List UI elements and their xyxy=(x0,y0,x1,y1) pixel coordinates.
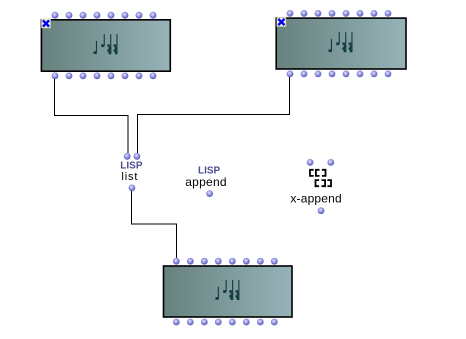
function box LISP list: name label xyxy=(121,171,138,183)
svg-text:list: list xyxy=(121,171,138,183)
function box LISP append: output bead xyxy=(206,190,213,197)
function box LISP list: output bead xyxy=(129,185,136,192)
svg-text:x-append: x-append xyxy=(290,192,341,206)
chord box 3 bottom beads xyxy=(173,319,278,326)
chord box 1 close X marker xyxy=(42,19,51,28)
chord box 3 top beads xyxy=(173,258,278,265)
wire from list output to chord box 3 input 1 xyxy=(132,191,177,258)
chord box 1 bottom beads xyxy=(52,72,157,79)
function box LISP append: name label xyxy=(185,175,227,189)
chord box 1 notes icon xyxy=(94,34,118,54)
chord box 2 bottom beads xyxy=(287,71,392,78)
function box x-append: input beads xyxy=(307,159,334,166)
chord box 1 top beads xyxy=(52,12,157,19)
svg-text:append: append xyxy=(185,175,227,189)
chord box 2 notes icon xyxy=(329,32,353,52)
function box x-append: output bead xyxy=(318,207,325,214)
chord box 2 top beads xyxy=(287,10,392,17)
function box x-append: name label xyxy=(290,192,341,206)
chord box 2 close X marker xyxy=(277,18,286,27)
chord box 2 body xyxy=(276,18,406,69)
function box x-append: parentheses icon xyxy=(310,170,331,186)
svg-text:LISP: LISP xyxy=(120,161,143,172)
chord box 1 body xyxy=(41,20,170,71)
chord box 3 body xyxy=(164,266,293,317)
chord box 3 notes icon xyxy=(216,280,240,300)
function box LISP list: input beads xyxy=(124,153,141,160)
function box LISP append: LISP label xyxy=(198,165,221,176)
function box LISP list: LISP label xyxy=(120,161,143,172)
wire from chord box 1 output to list input 1 xyxy=(55,79,128,153)
wire from chord box 2 output to list input 2 xyxy=(137,77,289,153)
